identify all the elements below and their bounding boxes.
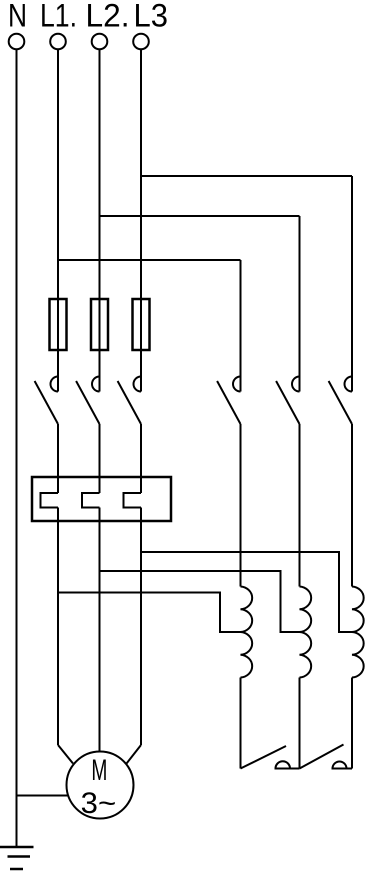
wire winding 3 to star contact [351,678,353,769]
star contact A fixed arc [276,761,291,768]
ground [0,847,34,869]
contactor KM1 pole 3 fixed contact arc [134,377,141,392]
contactor KM2 pole 1 blade [217,381,240,424]
wire L2 relay to motor [99,508,101,753]
wire N vertical [16,49,18,847]
wire L1 tap branch to winding 1 [58,593,241,633]
star contact B fixed arc [333,762,347,769]
svg-text:L1.: L1. [40,0,77,34]
fuse F1 [50,299,67,350]
terminal L3 [133,34,149,50]
contactor KM1 pole 1 blade [35,381,58,424]
wire bypass column 2 upper vertical [299,216,301,392]
contactor KM2 pole 2 fixed contact arc [292,377,300,392]
wire L2 contact to relay [99,424,101,493]
wire L3 tap branch to winding 3 [141,552,352,632]
svg-text:M: M [91,754,107,787]
overload relay heater element 3 [124,493,142,508]
overload relay FR body [32,477,171,521]
contactor KM2 pole 2 blade [276,381,299,424]
star contact A blade [241,746,287,769]
wire L3 upper vertical [140,49,142,391]
wire winding 1 to star contact [240,678,242,769]
overload relay heater element 1 [41,493,59,508]
wire contact to winding 2 [299,424,301,587]
overload relay heater element 2 [82,493,100,508]
star contact B blade [300,745,344,769]
contactor KM2 pole 3 blade [329,381,352,424]
wire L1 relay to motor [57,508,59,746]
motor lead left [58,745,73,764]
star contact A wire [275,768,300,770]
wire bypass column 1 upper vertical [240,260,242,392]
svg-text:3~: 3~ [81,787,117,820]
svg-text:L2.: L2. [86,0,130,34]
wire L1 contact to relay [57,424,59,493]
terminal L2 [92,34,108,50]
contactor KM2 pole 3 fixed contact arc [345,377,353,392]
fuse F2 [91,299,108,350]
autotransformer winding 3 [352,587,364,678]
svg-text:L3: L3 [134,0,169,34]
wire L2 branch to bypass column 2 [100,215,300,217]
terminal N [9,34,25,50]
autotransformer winding 2 [300,587,312,678]
wire L3 relay to motor [140,508,142,746]
wire contact to winding 3 [351,424,353,587]
motor M1 body [67,752,134,819]
wire L2 tap branch to winding 2 [100,571,300,632]
contactor KM1 pole 3 blade [118,381,141,424]
wire L1 branch to bypass column 1 [58,259,241,261]
autotransformer winding 1 [241,587,253,678]
fuse F3 [133,299,150,350]
wire L1 upper vertical [57,49,59,391]
wire winding 2 to star contact [299,678,301,769]
terminal L1 [50,34,66,50]
wire N to motor [17,795,69,797]
contactor KM2 pole 1 fixed contact arc [233,377,240,392]
contactor KM1 pole 2 fixed contact arc [92,377,99,392]
wire L2 upper vertical [99,49,101,391]
star contact B wire [332,768,353,770]
contactor KM1 pole 2 blade [76,381,99,424]
svg-text:N: N [8,0,27,34]
wire contact to winding 1 [240,424,242,587]
wire bypass column 3 upper vertical [351,176,353,392]
wire L3 contact to relay [140,424,142,493]
wire L3 branch to bypass column 3 [141,175,352,177]
contactor KM1 pole 1 fixed contact arc [51,377,59,392]
motor lead right [127,745,142,764]
